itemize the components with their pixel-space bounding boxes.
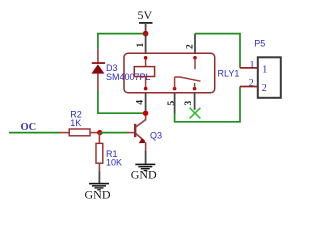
svg-text:4: 4	[136, 100, 146, 105]
wire relay pin2 to P5 pin1	[195, 34, 240, 68]
ground GND left	[89, 183, 109, 191]
svg-text:2: 2	[249, 78, 254, 89]
wire relay pin5 to P5 pin2	[175, 87, 240, 122]
transistor Q3	[127, 113, 146, 152]
svg-text:P5: P5	[254, 39, 265, 49]
relay RLY1 box	[124, 53, 215, 93]
power 5V	[138, 8, 153, 33]
svg-text:5V: 5V	[138, 8, 153, 22]
relay coil	[134, 56, 154, 90]
wire OC net	[9, 132, 61, 134]
svg-text:2: 2	[185, 44, 195, 49]
ground GND middle	[135, 164, 155, 172]
svg-text:1: 1	[136, 43, 146, 48]
diode D3	[91, 49, 105, 91]
relay pin 1 wire	[145, 34, 147, 54]
resistor R1	[96, 133, 103, 172]
svg-text:RLY1: RLY1	[218, 68, 240, 78]
connector P5	[240, 57, 281, 98]
no-connect X on relay pin 3	[190, 108, 201, 119]
wire R1 to ground	[98, 172, 100, 184]
relay contact pin3 stub	[193, 83, 197, 90]
wire diode anode to collector node	[98, 90, 146, 113]
relay pin 4 wire	[145, 93, 147, 111]
svg-text:GND: GND	[131, 168, 157, 182]
relay pin 5 wire	[174, 93, 176, 114]
svg-text:1: 1	[262, 65, 267, 76]
svg-text:2: 2	[262, 83, 267, 94]
svg-text:10K: 10K	[106, 158, 122, 168]
svg-text:Q3: Q3	[150, 131, 162, 141]
junction 5V node	[143, 31, 149, 37]
wire Q3 emitter to ground	[145, 151, 147, 164]
relay pin 3 wire	[194, 93, 196, 110]
svg-text:1K: 1K	[70, 118, 81, 128]
wire R2/R1 junction to Q3 base	[100, 132, 128, 134]
junction base node	[97, 130, 102, 135]
svg-text:3: 3	[184, 101, 194, 106]
svg-text:1: 1	[250, 60, 255, 71]
svg-text:5: 5	[167, 101, 177, 106]
wire diode cathode up-lead net	[97, 33, 99, 49]
resistor R2	[60, 129, 100, 136]
relay pin 2 wire	[194, 34, 196, 54]
relay contact fixed pin2	[193, 56, 197, 69]
svg-text:GND: GND	[85, 188, 111, 202]
svg-text:OC: OC	[21, 122, 37, 133]
junction collector node	[143, 111, 148, 116]
relay contact blade pin5	[173, 77, 201, 90]
wire 5V-junction to diode cathode (top rail left)	[98, 33, 146, 35]
